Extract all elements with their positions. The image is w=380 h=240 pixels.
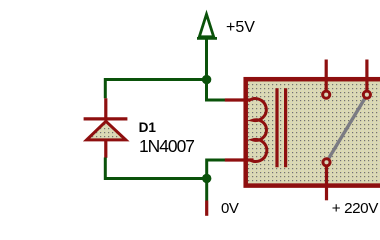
wire +5V stem down to node A	[205, 40, 208, 80]
junction node B	[202, 174, 211, 183]
relay RL1 body	[246, 79, 380, 185]
svg-text:1N4007: 1N4007	[139, 136, 194, 156]
relay contact NO (top right)	[363, 91, 370, 98]
wire diode anode to node B (down then right)	[105, 158, 206, 179]
wire node A to coil top (down then right)	[207, 80, 226, 101]
diode D1 symbol (1N4007)	[84, 119, 128, 140]
svg-text:D1: D1	[139, 120, 157, 135]
relay contact common (bottom)	[323, 159, 330, 166]
relay coil winding	[249, 99, 267, 162]
diode D1 pin (anode, bottom)	[104, 141, 107, 158]
wire node B up to coil bottom	[207, 160, 226, 179]
relay coil pin top	[225, 98, 250, 101]
junction node A	[202, 75, 211, 84]
relay coil pin bottom	[225, 158, 254, 161]
diode D1 pin (cathode, top)	[104, 98, 107, 118]
wire contact NO upward	[365, 60, 368, 91]
wire common contact down to +220V	[325, 167, 328, 201]
power terminal +5V (arrow symbol)	[197, 14, 217, 38]
wire contact NC upward	[325, 60, 328, 91]
relay switch blade (armature)	[329, 99, 365, 159]
wire node B down toward 0V	[205, 182, 208, 201]
ground terminal 0V pin	[205, 201, 208, 216]
relay contact NC (top left)	[323, 91, 330, 98]
svg-text:0V: 0V	[221, 200, 239, 217]
relay core bar 2	[284, 88, 287, 167]
svg-text:+5V: +5V	[226, 19, 255, 36]
svg-text:+ 220V: + 220V	[332, 200, 379, 217]
wire diode cathode vertical (green part)	[104, 78, 107, 98]
relay core bar 1	[275, 88, 278, 167]
wire node A to diode cathode (top horizontal)	[105, 78, 206, 81]
